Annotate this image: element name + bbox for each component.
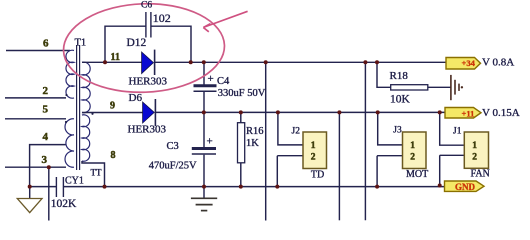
- junction pin4 / ground triangle / bus: [28, 185, 32, 189]
- transformer T1 right winding upper: [82, 62, 90, 113]
- svg-text:V 0.8A: V 0.8A: [482, 57, 514, 69]
- junction vertical bus / +34 rail: [264, 60, 268, 64]
- svg-text:+: +: [208, 73, 214, 85]
- power tag +34: [446, 58, 481, 70]
- wire pin 5: [5, 118, 66, 120]
- svg-text:11: 11: [111, 52, 120, 63]
- svg-text:2: 2: [410, 153, 415, 163]
- svg-text:C3: C3: [167, 141, 179, 152]
- transformer T1 right winding lower: [82, 115, 90, 161]
- junction J2 pin2 / ground bus: [275, 185, 279, 189]
- transformer phase dots: [65, 94, 94, 123]
- power ground small dot: [461, 86, 463, 88]
- highlight ellipse: [62, 1, 226, 95]
- svg-text:330uF 50V: 330uF 50V: [218, 88, 266, 99]
- wire pin 8 / TT to ground bus: [82, 161, 105, 187]
- junction R16 / ground bus: [239, 185, 243, 189]
- svg-text:3: 3: [42, 154, 48, 166]
- junction C6 left leg / D12 anode: [103, 60, 107, 64]
- svg-text:+34: +34: [462, 58, 476, 68]
- connector J2 stubs: [277, 112, 303, 186]
- power tag +11: [445, 108, 481, 119]
- svg-text:TD: TD: [311, 169, 324, 180]
- junction vertical bus 3 / +11 rail: [337, 110, 341, 114]
- transformer T1 left winding upper: [66, 50, 74, 98]
- junction J1 pin1 / +11 rail: [438, 110, 442, 114]
- resistor R16 leads: [240, 112, 242, 186]
- svg-text:FAN: FAN: [471, 169, 490, 180]
- resistor R18 right lead: [428, 86, 451, 88]
- power tag GND: [445, 181, 485, 191]
- connector J1 stubs: [440, 112, 465, 185]
- junction vertical bus 2 / +34 rail: [363, 60, 367, 64]
- connector J3 box: [403, 132, 427, 169]
- junction J2 pin1 / +11 rail: [276, 110, 280, 114]
- highlight arrow: [203, 11, 247, 32]
- wire pin3 ground branch: [48, 167, 50, 220]
- capacitor C4 bottom lead / C3 top lead: [203, 92, 205, 147]
- svg-text:470uF/25V: 470uF/25V: [149, 161, 197, 172]
- svg-text:6: 6: [43, 38, 49, 50]
- earth ground under C3: [203, 187, 205, 198]
- svg-text:1: 1: [410, 141, 415, 151]
- svg-text:2: 2: [472, 153, 477, 163]
- diode D12 cathode bar: [154, 50, 156, 75]
- diode D6 cathode bar: [154, 99, 156, 126]
- diode D6 output wire (+11 rail): [156, 111, 445, 113]
- svg-text:T1: T1: [75, 38, 87, 49]
- svg-text:HER303: HER303: [128, 124, 167, 136]
- svg-text:1: 1: [472, 141, 477, 151]
- long vertical bus x=365.9: [364, 62, 366, 220]
- ground bus bottom: [30, 186, 445, 188]
- wire pin 3: [5, 166, 66, 168]
- wire pin 6: [6, 50, 70, 52]
- capacitor C4 plates: [194, 84, 217, 87]
- diode D12 triangle: [142, 52, 154, 74]
- diode D12 output wire: [155, 61, 446, 63]
- junction pin3 ground branch: [47, 165, 51, 169]
- svg-text:CY1: CY1: [65, 176, 84, 187]
- svg-text:102: 102: [153, 11, 171, 25]
- junction R18 / +34 rail: [375, 60, 379, 64]
- power ground symbol bars (right of R18): [451, 75, 459, 100]
- transformer T1 left winding lower: [65, 119, 74, 167]
- svg-text:R16: R16: [246, 126, 264, 137]
- svg-text:J3: J3: [393, 125, 402, 135]
- svg-text:4: 4: [43, 131, 49, 143]
- long vertical bus x=265.7: [265, 62, 267, 220]
- junction J3 pin2 / ground bus: [375, 185, 379, 189]
- svg-text:V 0.15A: V 0.15A: [482, 107, 520, 119]
- junction R16 / +11 rail: [239, 110, 243, 114]
- svg-text:8: 8: [111, 150, 116, 161]
- svg-text:R18: R18: [390, 70, 409, 82]
- wire pin 9 to D6 anode: [82, 112, 143, 114]
- wire pin 2: [5, 97, 66, 99]
- ground triangle stub: [29, 187, 31, 199]
- svg-text:9: 9: [110, 101, 115, 112]
- svg-text:MOT: MOT: [406, 169, 428, 180]
- junction C4-C3 / +11 rail: [202, 110, 206, 114]
- wire pin 4: [30, 145, 66, 187]
- capacitor C3 bottom lead: [203, 155, 205, 187]
- svg-text:5: 5: [43, 104, 49, 116]
- svg-text:GND: GND: [455, 182, 476, 192]
- resistor R18 body: [391, 85, 428, 90]
- connector J2 box: [303, 132, 327, 169]
- capacitor C6 wires: [105, 26, 191, 62]
- connector J1 box: [464, 132, 488, 168]
- transformer T1 core: [77, 45, 80, 170]
- svg-text:J1: J1: [453, 127, 462, 137]
- capacitor C3 plates: [192, 147, 216, 150]
- capacitor C4 top lead: [203, 62, 205, 84]
- capacitor CY1 plates: [56, 177, 63, 197]
- svg-text:C6: C6: [141, 1, 152, 11]
- capacitor C6 plates: [146, 12, 151, 38]
- svg-text:1K: 1K: [246, 138, 259, 149]
- svg-text:TT: TT: [91, 168, 102, 178]
- junction J3 pin1 / +11 rail: [376, 110, 380, 114]
- long vertical bus x=339.4: [338, 112, 340, 220]
- wire pin 11 to D12 anode: [82, 61, 142, 63]
- svg-text:1: 1: [311, 141, 316, 151]
- svg-text:2: 2: [43, 85, 49, 97]
- junction C3 / earth ground / bus: [202, 185, 206, 189]
- junction C4 / +34 rail: [202, 60, 206, 64]
- ground triangle (open): [17, 199, 42, 213]
- connector J3 stubs: [377, 112, 402, 186]
- svg-text:D6: D6: [129, 92, 143, 104]
- svg-text:D12: D12: [127, 37, 147, 49]
- resistor R16 body: [238, 123, 245, 163]
- junction C6 right leg / +34 rail: [189, 60, 193, 64]
- svg-text:102K: 102K: [51, 198, 77, 210]
- diode D6 triangle: [143, 102, 155, 123]
- svg-text:HER303: HER303: [129, 76, 168, 88]
- svg-text:10K: 10K: [390, 93, 411, 105]
- svg-text:2: 2: [311, 153, 316, 163]
- svg-text:C4: C4: [217, 76, 230, 87]
- resistor R18 left lead: [377, 62, 391, 87]
- svg-text:+: +: [207, 136, 213, 148]
- junction TT / ground bus: [103, 185, 107, 189]
- svg-text:J2: J2: [292, 127, 301, 137]
- junction J1 pin2 / GND tag: [438, 184, 442, 188]
- svg-text:+11: +11: [462, 108, 475, 118]
